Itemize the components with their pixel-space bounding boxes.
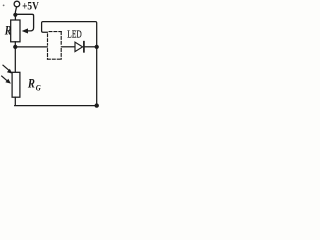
svg-text:LED: LED (67, 28, 82, 40)
svg-text:R: R (27, 78, 35, 91)
svg-text:R: R (4, 25, 12, 38)
svg-text:+5V: +5V (22, 0, 39, 13)
svg-text:G: G (36, 83, 41, 93)
